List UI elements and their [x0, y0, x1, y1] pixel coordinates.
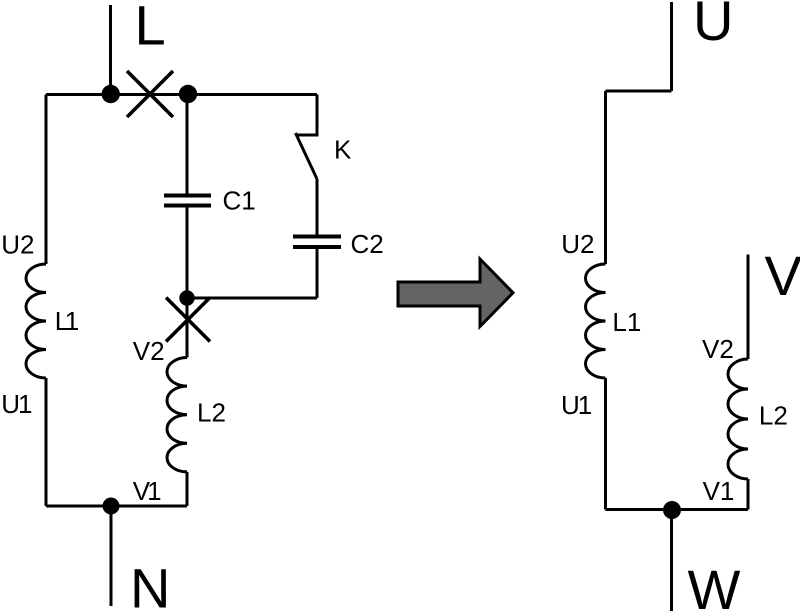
- svg-text:V: V: [765, 244, 800, 307]
- wire: middle rail above C1: [186, 95, 189, 195]
- svg-text:V1: V1: [703, 476, 735, 506]
- svg-text:W: W: [688, 558, 741, 611]
- wire: left rail lower: [45, 378, 48, 506]
- wire: rail from middle node to C2 branch: [187, 297, 317, 300]
- wire: terminal W lead: [670, 510, 673, 611]
- wire: terminal N lead: [110, 506, 113, 606]
- wire: bottom rail (right circuit): [606, 508, 749, 511]
- svg-text:U2: U2: [1, 230, 34, 260]
- svg-text:U1: U1: [1, 389, 32, 419]
- svg-text:U1: U1: [561, 390, 592, 420]
- wire: left rail upper: [45, 95, 48, 265]
- svg-text:L: L: [135, 0, 166, 57]
- svg-text:K: K: [334, 135, 352, 165]
- wire: jog to U branch: [606, 90, 672, 93]
- wire: between switch and C2: [316, 179, 319, 235]
- wire: U branch upper: [604, 91, 607, 264]
- svg-text:V1: V1: [133, 476, 161, 506]
- wire: down to L2: [186, 298, 189, 358]
- inductor L2: [167, 358, 187, 472]
- inductor L2 (right): [728, 359, 748, 479]
- inductor L1 (right): [586, 264, 606, 378]
- svg-text:L1: L1: [612, 307, 641, 337]
- arrow (transform direction): [398, 259, 513, 327]
- svg-text:V2: V2: [702, 334, 734, 364]
- svg-text:C1: C1: [223, 186, 256, 216]
- svg-text:N: N: [130, 557, 170, 611]
- capacitor C1: [164, 196, 211, 206]
- X mark (break) on top rail: [127, 71, 173, 117]
- switch K: [296, 133, 319, 179]
- inductor L1: [26, 264, 46, 378]
- wire: bottom rail: [46, 505, 187, 508]
- capacitor C2: [293, 237, 341, 248]
- svg-text:V2: V2: [133, 336, 165, 366]
- node dot middle: [179, 290, 194, 305]
- wire: U branch lower: [604, 378, 607, 510]
- node dot at N junction: [103, 498, 120, 515]
- node dot top of C1 branch: [179, 85, 197, 103]
- wire: terminal V lead: [747, 255, 750, 360]
- svg-text:L2: L2: [759, 401, 788, 431]
- X mark (break) below middle node: [166, 298, 210, 342]
- wire: below L2 (right): [747, 479, 750, 510]
- svg-text:L2: L2: [197, 398, 226, 428]
- svg-text:C2: C2: [351, 229, 384, 259]
- node dot at L junction: [102, 85, 120, 103]
- wire: terminal U lead: [670, 2, 673, 91]
- wire: middle rail below C1: [186, 208, 189, 299]
- svg-text:U: U: [693, 0, 733, 52]
- wire: right branch above switch: [316, 95, 319, 136]
- wire: below C2: [316, 249, 319, 299]
- wire: top rail: [46, 93, 317, 96]
- svg-text:U2: U2: [561, 229, 594, 259]
- wire: below L2: [186, 472, 189, 506]
- wire: terminal L lead-in: [109, 5, 112, 95]
- node dot at W junction: [663, 501, 681, 519]
